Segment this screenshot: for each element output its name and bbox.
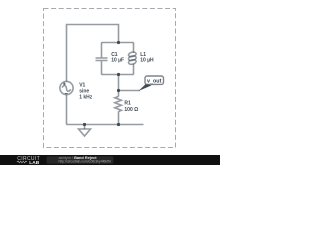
svg-text:LAB: LAB <box>29 160 39 165</box>
svg-text:v_out: v_out <box>147 79 162 85</box>
svg-text:http://circuitlab.com/c/3E3ky4: http://circuitlab.com/c/3E3ky4f6kf9r <box>59 160 112 164</box>
svg-text:R1: R1 <box>124 101 131 107</box>
svg-text:10 µF: 10 µF <box>111 58 124 64</box>
svg-text:1 kHz: 1 kHz <box>79 95 93 101</box>
svg-text:sine: sine <box>79 89 89 95</box>
svg-text:100 Ω: 100 Ω <box>124 107 138 113</box>
svg-text:10 µH: 10 µH <box>140 58 154 64</box>
